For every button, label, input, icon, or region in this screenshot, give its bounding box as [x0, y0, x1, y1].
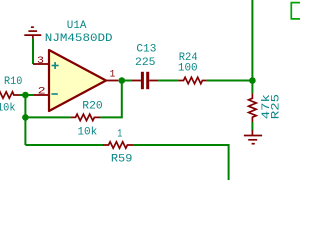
svg-text:10k: 10k	[77, 126, 97, 138]
svg-text:1: 1	[110, 69, 116, 81]
resistor R59	[103, 142, 134, 148]
pin 1 (output)	[106, 80, 118, 82]
wire R24 to right node	[207, 80, 253, 82]
wire R10 to pin 2	[20, 94, 35, 96]
wire to R20	[25, 116, 70, 118]
resistor R20	[71, 114, 101, 120]
svg-text:NJM4580DD: NJM4580DD	[45, 33, 113, 45]
svg-text:U1A: U1A	[67, 20, 87, 32]
resistor R24	[178, 77, 206, 83]
wire pin3 to GND	[32, 39, 34, 64]
pin 3	[33, 63, 49, 65]
hierarchical sheet corner (top right)	[291, 3, 300, 19]
capacitor C13	[132, 80, 141, 82]
svg-text:1: 1	[117, 128, 122, 140]
svg-text:R20: R20	[82, 100, 102, 112]
junction node feedback	[22, 114, 29, 121]
svg-text:R10: R10	[4, 76, 22, 88]
svg-text:10k: 10k	[0, 103, 16, 115]
wire output to C13	[122, 80, 132, 82]
pin 2	[34, 94, 49, 96]
wire C13 to R24	[158, 80, 178, 82]
svg-text:3: 3	[37, 55, 44, 67]
wire feedback vertical	[24, 95, 26, 145]
svg-text:225: 225	[135, 57, 156, 69]
svg-text:R25: R25	[271, 94, 283, 119]
wire R20 to output node	[100, 81, 121, 118]
svg-text:2: 2	[38, 86, 46, 98]
power symbol GND (rotated up, at op-amp pin 3)	[24, 27, 41, 39]
junction node pin 2	[22, 92, 29, 99]
op-amp U1A	[49, 50, 106, 111]
wire feedback bottom to R59	[25, 144, 103, 146]
junction node right	[249, 77, 256, 84]
resistor R25 (vertical)	[249, 93, 257, 122]
plus mark (pin 3 input)	[52, 62, 59, 69]
svg-text:R59: R59	[111, 153, 132, 165]
resistor R10 (left edge, clipped)	[0, 92, 20, 98]
junction node output	[119, 77, 126, 84]
svg-text:C13: C13	[136, 44, 156, 56]
ground	[244, 130, 262, 144]
svg-text:100: 100	[178, 63, 198, 75]
wire R25 to ground	[251, 122, 253, 131]
wire R59 to bottom edge	[134, 145, 229, 180]
minus mark (pin 2 input)	[52, 93, 58, 95]
wire top vertical	[251, 0, 253, 93]
